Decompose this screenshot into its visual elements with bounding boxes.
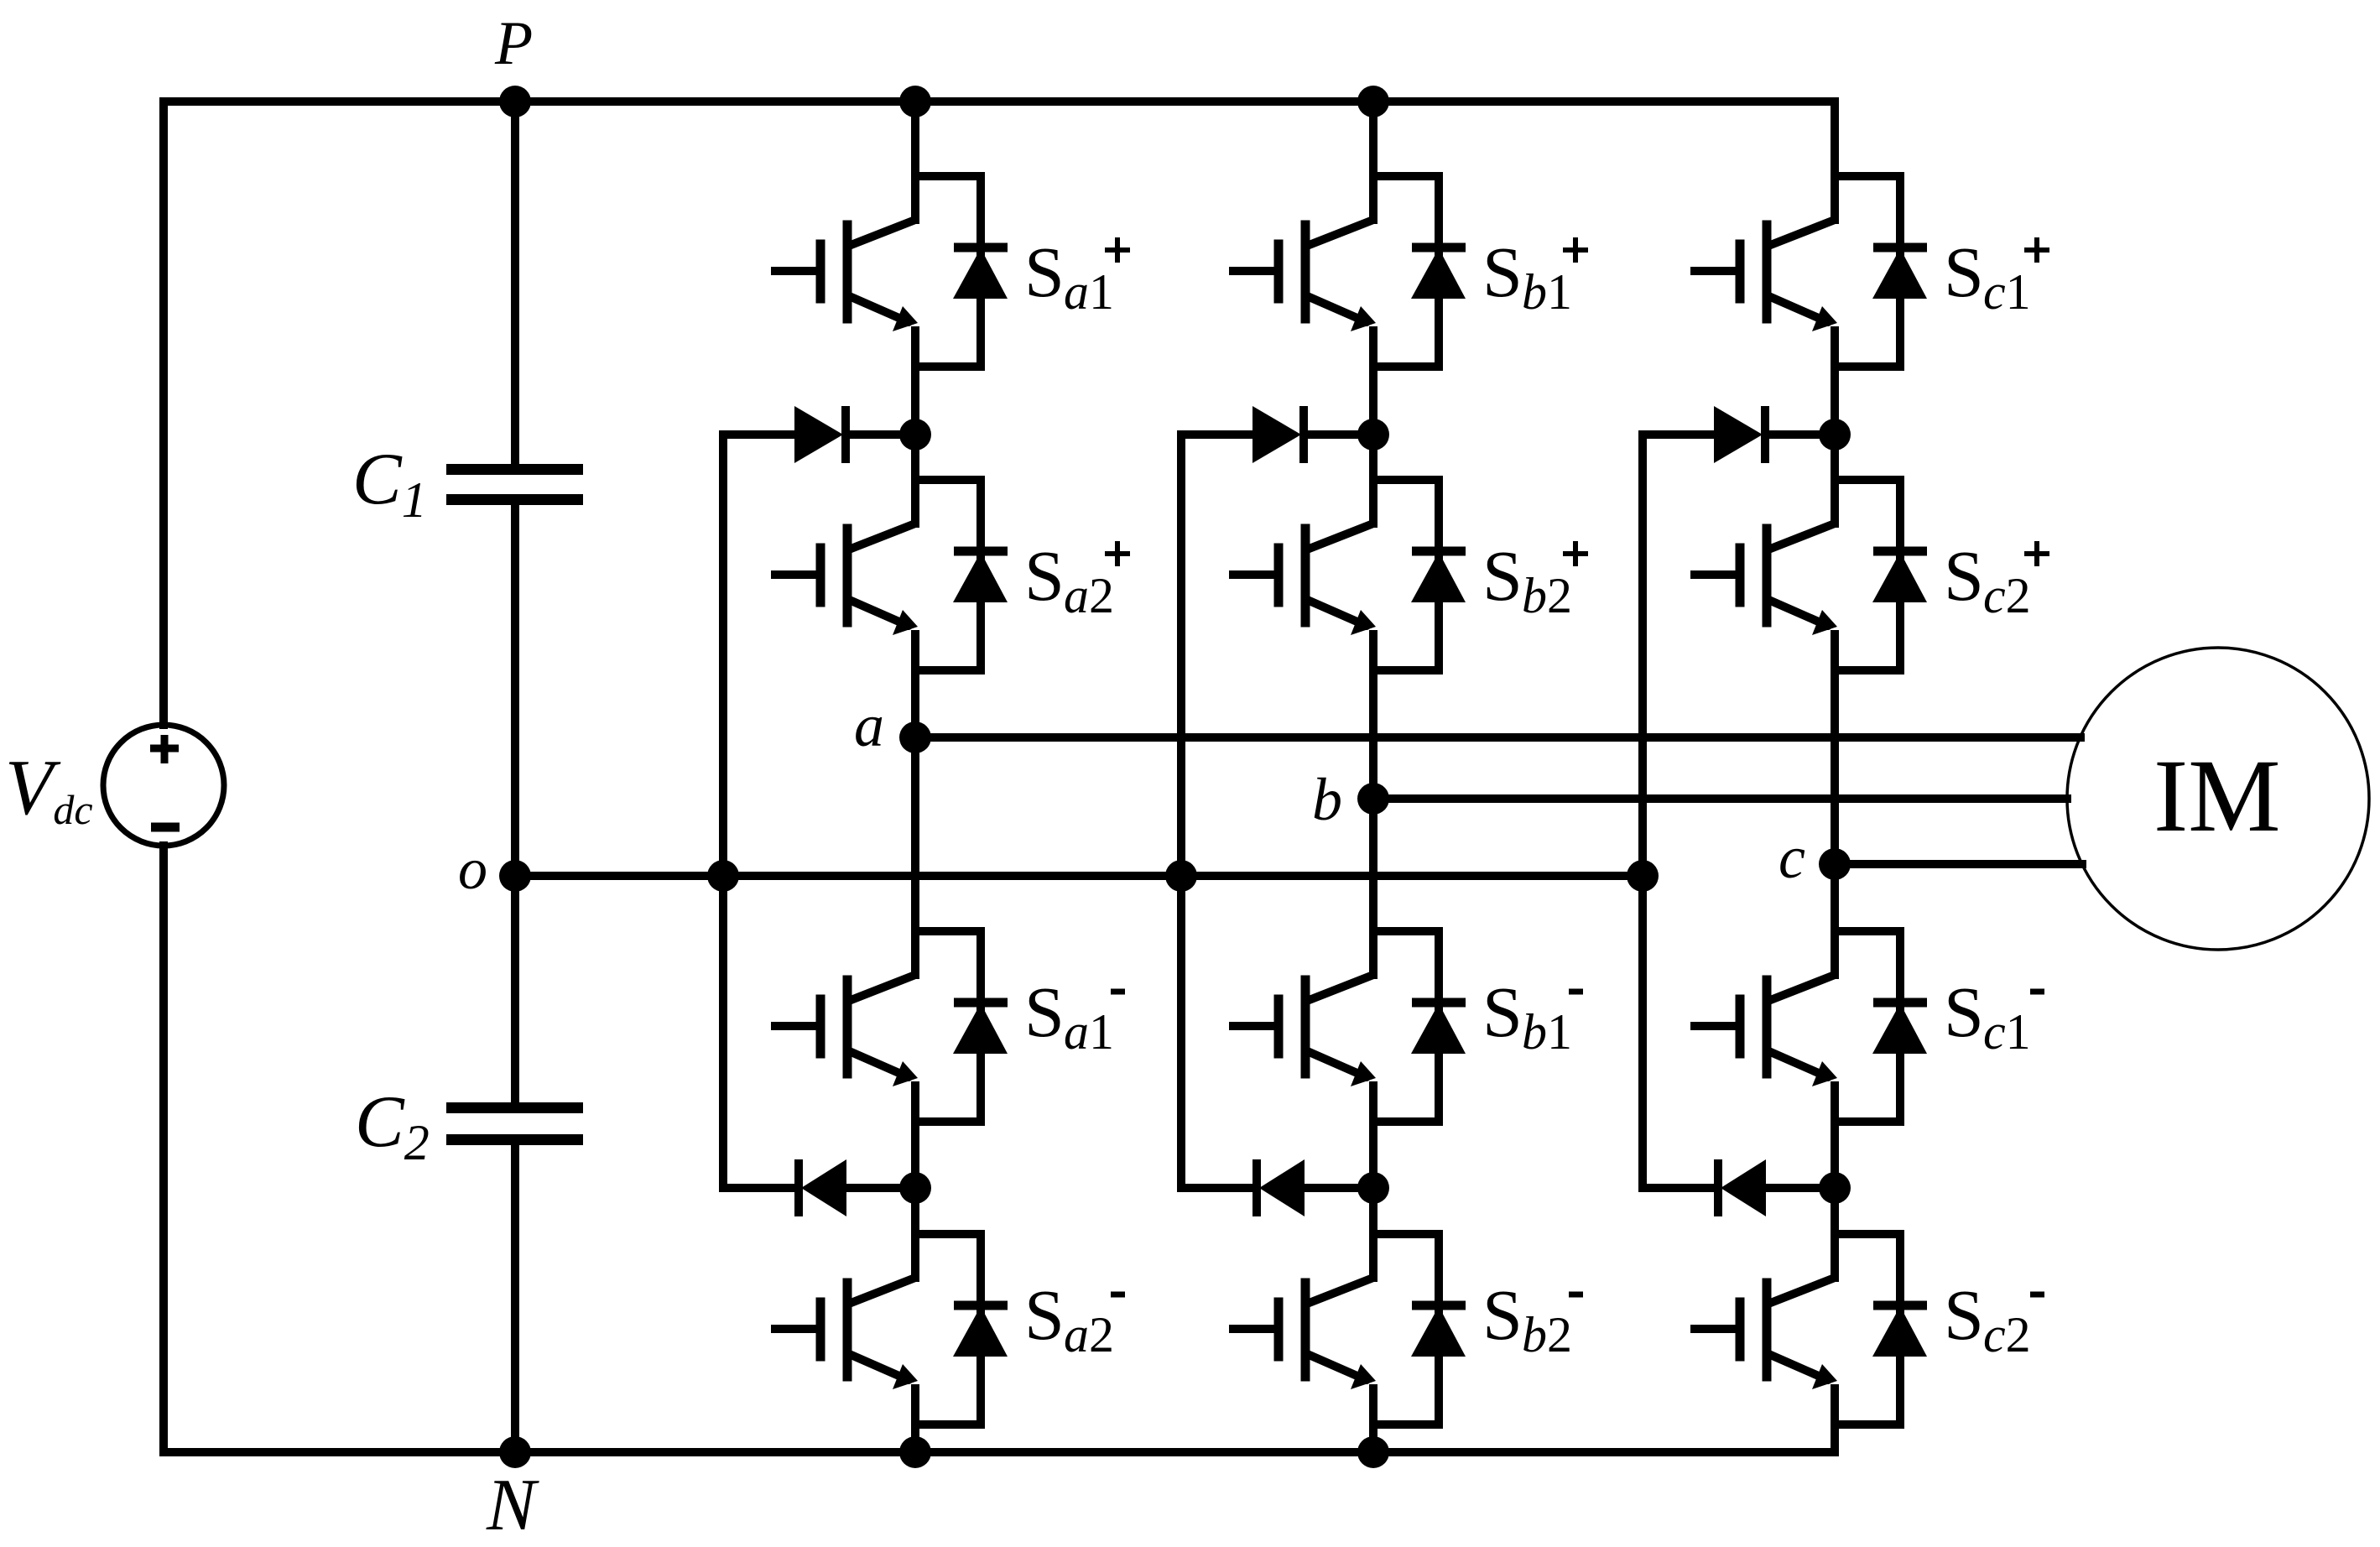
transistor Sa2- IGBT with antiparallel diode (775, 1230, 1008, 1425)
node P junction dot (499, 86, 531, 117)
label Sa1+ (1024, 232, 1114, 320)
transistor Sb1+ IGBT with antiparallel diode (1233, 172, 1466, 367)
wire output phase b to motor (1373, 794, 2067, 803)
svg-text:S: S (1944, 1274, 1984, 1355)
svg-text:S: S (1024, 971, 1065, 1052)
node phase a N-rail junction dot (899, 1436, 931, 1468)
wire P rail (top DC bus) (164, 97, 1834, 106)
label Sc2+ (1944, 535, 2031, 623)
wire N rail (bottom DC bus) (164, 1448, 1834, 1456)
wire Sa2- emitter to N rail (911, 1425, 919, 1452)
wire lower clamp junction to Sb2- collector (1369, 1188, 1377, 1234)
wire Sc2- emitter to N rail (1831, 1425, 1839, 1452)
wire left from P rail to Vdc source + (159, 102, 168, 725)
node o junction dot (499, 860, 531, 892)
wire capacitor C1 to node o and capacitor C2 (511, 503, 519, 1107)
node phase b P-rail junction dot (1357, 86, 1389, 117)
transistor Sc2+ IGBT with antiparallel diode (1695, 476, 1927, 670)
node phase c lower clamp junction dot (1819, 1172, 1851, 1204)
wire Sa1- emitter to lower clamp junction (911, 1122, 919, 1188)
motor IM (induction machine) (2067, 648, 2369, 950)
svg-text:S: S (1024, 1274, 1065, 1355)
wire P rail to Sb1+ collector (1369, 102, 1377, 180)
svg-text:b: b (1312, 766, 1342, 833)
svg-text:S: S (1482, 232, 1523, 312)
transistor Sa1- IGBT with antiparallel diode (775, 927, 1008, 1122)
wire Sb2+ emitter to node b (1369, 670, 1377, 799)
label Sc1- (1944, 971, 2031, 1060)
node N junction dot (499, 1436, 531, 1468)
svg-text:a2: a2 (1064, 1307, 1114, 1362)
label Sa1- (1024, 971, 1114, 1060)
node phase c clamp-to-neutral junction dot (1627, 860, 1659, 892)
svg-text:o: o (458, 837, 487, 902)
wire Sa1+ emitter to clamp junction (911, 367, 919, 435)
svg-text:S: S (1482, 1274, 1523, 1355)
svg-text:a1: a1 (1064, 1004, 1114, 1060)
transistor Sa2+ IGBT with antiparallel diode (775, 476, 1008, 670)
capacitor C2 (446, 1102, 583, 1145)
svg-text:a2: a2 (1064, 568, 1114, 623)
diode Db2 clamp (lower, to neutral) (1181, 1159, 1373, 1216)
capacitor C1 (446, 464, 583, 505)
transistor Sc1- IGBT with antiparallel diode (1695, 927, 1927, 1122)
label Sb2+ (1482, 535, 1572, 623)
node phase b upper clamp junction dot (1357, 419, 1389, 451)
wire Sb1+ emitter to clamp junction (1369, 367, 1377, 435)
svg-text:P: P (494, 9, 533, 78)
svg-text:c1: c1 (1983, 1004, 2031, 1060)
wire clamp junction to Sb2+ collector (1369, 435, 1377, 480)
svg-text:S: S (1024, 535, 1065, 616)
svg-text:S: S (1482, 535, 1523, 616)
svg-text:S: S (1944, 971, 1984, 1052)
wire lower clamp junction to Sa2- collector (911, 1188, 919, 1234)
svg-text:b2: b2 (1522, 1307, 1572, 1362)
node phase b N-rail junction dot (1357, 1436, 1389, 1468)
node b output junction dot (1357, 783, 1389, 815)
node c output junction dot (1819, 848, 1851, 880)
svg-text:b1: b1 (1522, 1004, 1572, 1060)
wire output phase a to motor (915, 733, 2081, 742)
wire phase c clamp vertical to neutral (1638, 435, 1647, 1188)
svg-text:c2: c2 (1983, 568, 2031, 623)
wire phase b clamp vertical to neutral (1177, 435, 1185, 1188)
svg-text:S: S (1024, 232, 1065, 312)
svg-text:a: a (854, 692, 884, 759)
wire Sc1- emitter to lower clamp junction (1831, 1122, 1839, 1188)
svg-text:S: S (1482, 971, 1523, 1052)
voltage source Vdc (103, 725, 224, 846)
wire from Vdc source - to N rail (159, 846, 168, 1452)
label Sa2- (1024, 1274, 1114, 1362)
label Sb2- (1482, 1274, 1572, 1362)
svg-text:b2: b2 (1522, 568, 1572, 623)
label Sb1- (1482, 971, 1572, 1060)
wire clamp junction to Sa2+ collector (911, 435, 919, 480)
wire Sb1- emitter to lower clamp junction (1369, 1122, 1377, 1188)
transistor Sc1+ IGBT with antiparallel diode (1695, 172, 1927, 367)
label Sa2+ (1024, 535, 1114, 623)
svg-text:S: S (1944, 232, 1984, 312)
svg-text:c2: c2 (1983, 1307, 2031, 1362)
svg-text:a1: a1 (1064, 264, 1114, 320)
node phase b lower clamp junction dot (1357, 1172, 1389, 1204)
wire clamp junction to Sc2+ collector (1831, 435, 1839, 480)
wire phase a clamp vertical to neutral (719, 435, 727, 1188)
wire output phase c to motor (1835, 860, 2082, 868)
diode Dc2 clamp (lower, to neutral) (1643, 1159, 1835, 1216)
diode Da2 clamp (lower, to neutral) (723, 1159, 915, 1216)
wire Sc2+ emitter to node c (1831, 670, 1839, 864)
wire Sb2- emitter to N rail (1369, 1425, 1377, 1452)
svg-text:S: S (1944, 535, 1984, 616)
node phase a lower clamp junction dot (899, 1172, 931, 1204)
svg-text:N: N (486, 1465, 539, 1546)
node a output junction dot (899, 721, 931, 753)
wire Sa2+ emitter to node a (911, 670, 919, 737)
wire node c to Sc1- collector (1831, 864, 1839, 935)
label Sc1+ (1944, 232, 2031, 320)
diode Db1 clamp (upper, to neutral) (1181, 406, 1373, 463)
wire neutral o line (515, 872, 1642, 880)
node phase a upper clamp junction dot (899, 419, 931, 451)
transistor Sb2- IGBT with antiparallel diode (1233, 1230, 1466, 1425)
svg-text:c1: c1 (1983, 264, 2031, 320)
wire Sc1+ emitter to clamp junction (1831, 367, 1839, 435)
wire P node to capacitor C1 (511, 102, 519, 466)
wire capacitor C2 to N rail (511, 1141, 519, 1452)
wire node a to Sa1- collector (911, 737, 919, 935)
diode Da1 clamp (upper, to neutral) (723, 406, 915, 463)
diode Dc1 clamp (upper, to neutral) (1643, 406, 1835, 463)
node phase a P-rail junction dot (899, 86, 931, 117)
wire P rail to Sc1+ collector (1831, 102, 1839, 180)
transistor Sa1+ IGBT with antiparallel diode (775, 172, 1008, 367)
transistor Sb1- IGBT with antiparallel diode (1233, 927, 1466, 1122)
wire lower clamp junction to Sc2- collector (1831, 1188, 1839, 1234)
svg-text:IM: IM (2153, 738, 2281, 853)
label Sc2- (1944, 1274, 2031, 1362)
node phase b clamp-to-neutral junction dot (1165, 860, 1197, 892)
wire P rail to Sa1+ collector (911, 102, 919, 180)
svg-text:c: c (1778, 824, 1805, 891)
label Sb1+ (1482, 232, 1572, 320)
transistor Sc2- IGBT with antiparallel diode (1695, 1230, 1927, 1425)
node phase a clamp-to-neutral junction dot (707, 860, 739, 892)
node phase c upper clamp junction dot (1819, 419, 1851, 451)
transistor Sb2+ IGBT with antiparallel diode (1233, 476, 1466, 670)
svg-text:b1: b1 (1522, 264, 1572, 320)
wire node b to Sb1- collector (1369, 799, 1377, 935)
